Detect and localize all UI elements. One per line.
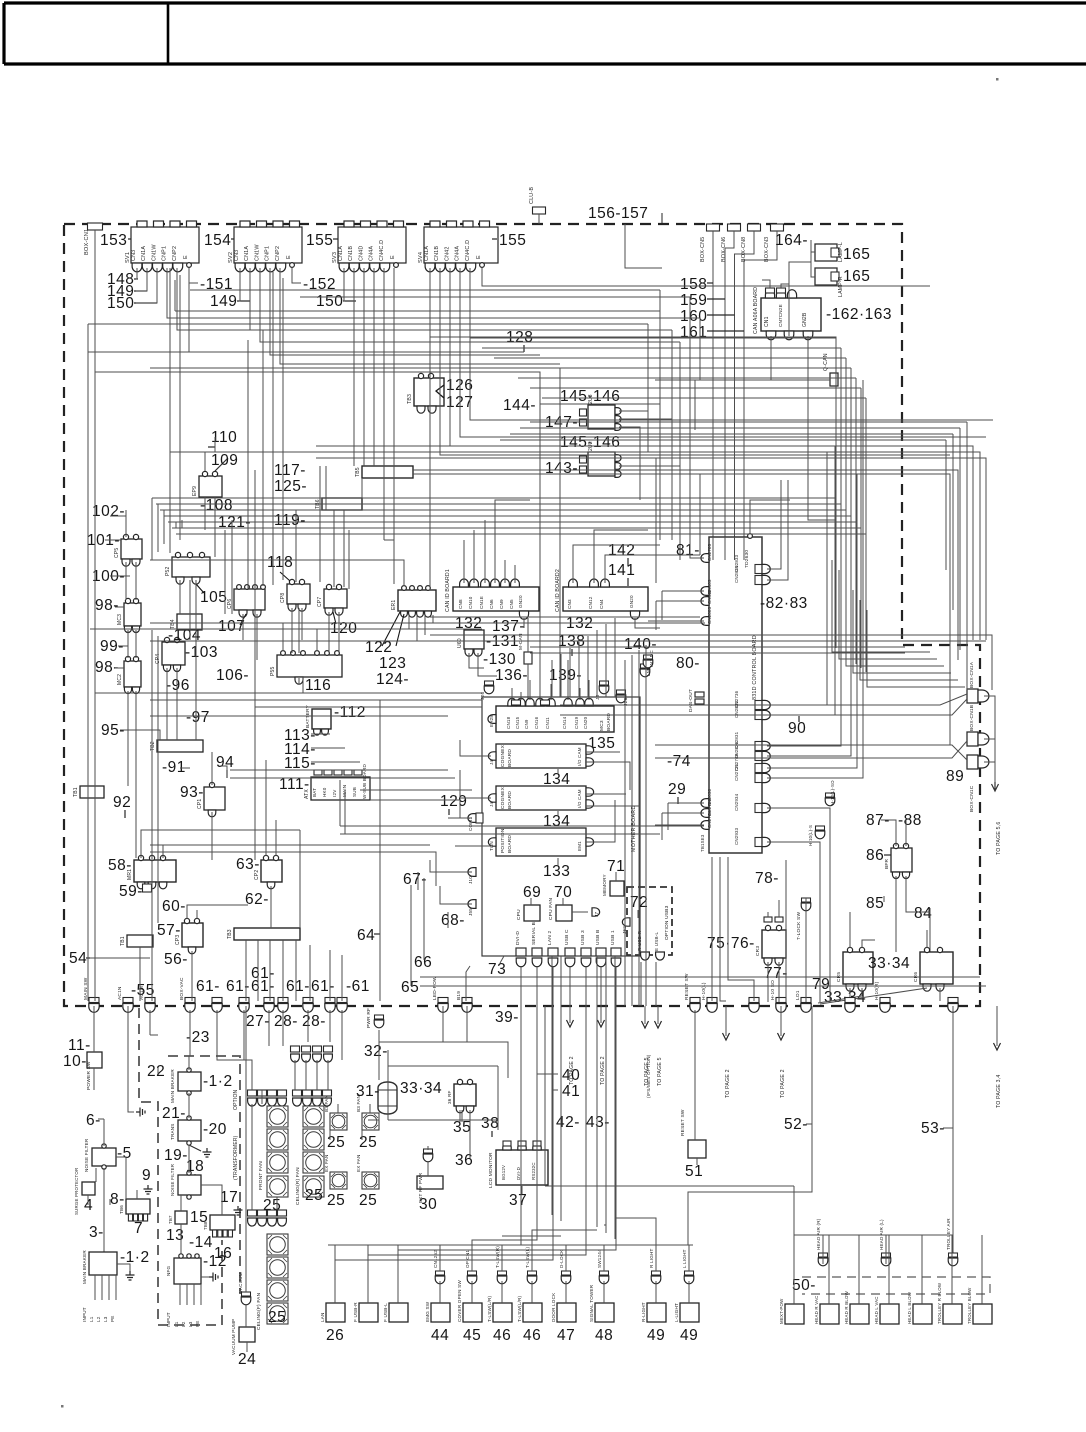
svg-text:105: 105: [200, 589, 227, 606]
wire sv4 p5: [470, 268, 993, 420]
wire chain 3: [984, 761, 995, 763]
svg-text:48: 48: [595, 1327, 613, 1344]
svg-text:CN10: CN10: [468, 596, 473, 609]
svg-text:BOARD: BOARD: [507, 835, 513, 853]
wire head air r: [822, 1235, 824, 1264]
wire p55 up2: [316, 629, 318, 651]
svg-text:GN20: GN20: [518, 595, 523, 608]
wire FUSBL up: [397, 1245, 399, 1303]
device TROLLEY BLOW: [973, 1304, 992, 1324]
wire tb1b down: [139, 947, 141, 1001]
svg-text:31-: 31-: [356, 1083, 380, 1100]
wire u60 out2: [478, 653, 497, 676]
connector BOX-CN6: [728, 224, 741, 231]
wire p55 down: [302, 677, 304, 693]
riser r3: [850, 368, 852, 516]
svg-text:SW1244: SW1244: [597, 1249, 602, 1268]
wire cp2 up: [265, 760, 267, 856]
bus a5: [150, 368, 560, 697]
pin CN4C.D of SV4: [466, 263, 476, 272]
wire mid v2: [247, 340, 249, 589]
wire tb3 down2: [257, 940, 259, 1001]
relay P55 (116): [277, 655, 342, 677]
wire rf loop bottom: [388, 1119, 498, 1121]
wire sv1 cnp2 drop: [179, 275, 181, 540]
wire cp8 feed2: [295, 510, 297, 582]
breaker EP9 (108-110): [199, 476, 222, 497]
wire rloop1: [631, 655, 633, 1006]
wire 35 down: [459, 1110, 461, 1122]
device COVER OPEN SW: [463, 1303, 482, 1322]
wire sv1 e down: [188, 283, 190, 352]
svg-text:32-: 32-: [364, 1043, 388, 1060]
wire rv0: [945, 440, 947, 570]
svg-text:159: 159: [680, 292, 707, 309]
wire rloop2: [638, 650, 640, 1006]
connector pass on boundary: [749, 998, 759, 1013]
wire: [572, 911, 588, 913]
wire cn2933 out: [767, 842, 820, 1002]
svg-text:LED-POW: LED-POW: [432, 976, 438, 1000]
svg-text:24: 24: [238, 1351, 256, 1368]
svg-text:CN2934: CN2934: [734, 793, 739, 811]
svg-text:10-: 10-: [63, 1053, 87, 1070]
pin CN4: [776, 290, 785, 298]
wire: [226, 770, 228, 778]
svg-text:CAN A06A BOARD: CAN A06A BOARD: [753, 287, 759, 334]
wire 6 to filter: [103, 1119, 105, 1146]
wire: [134, 302, 157, 304]
device HEAD L VAC: [880, 1304, 899, 1324]
fan EXb: [362, 1172, 379, 1189]
svg-text:CELING(F) FAN: CELING(F) FAN: [256, 1292, 262, 1330]
wire HEAD L VAC: [888, 1235, 890, 1304]
pin CN2736: [755, 701, 762, 710]
device HEAD R BLOW: [850, 1304, 869, 1324]
pin CAN board bottom: [784, 331, 794, 340]
wire AC1N: [128, 1006, 134, 1112]
wire 101 t: [105, 539, 121, 541]
svg-text:DVI-D: DVI-D: [516, 1167, 521, 1180]
connector: [640, 664, 650, 677]
pin CN2704: [701, 821, 709, 830]
wire: [343, 300, 356, 302]
wire cp5 mc3: [125, 562, 127, 600]
wire ext1: [427, 1146, 429, 1150]
wire mh1: [230, 769, 448, 771]
connector LED-POW on boundary: [438, 998, 448, 1013]
svg-text:65: 65: [401, 979, 419, 996]
transformer TRANS (20): [178, 1120, 201, 1141]
wire td2630: [750, 500, 790, 534]
pin E of SV1: [187, 263, 192, 268]
svg-text:CAN ID BOARD1: CAN ID BOARD1: [445, 569, 451, 612]
wire 150: [136, 268, 157, 303]
wire braker2 trans: [188, 1093, 190, 1118]
pin CN1A of SV4: [425, 263, 435, 272]
svg-text:45: 45: [463, 1327, 481, 1344]
wire input2: [200, 1284, 202, 1305]
wire tb3 down3: [269, 940, 271, 1001]
wire cp7 p55: [328, 612, 330, 653]
svg-text:CN2933: CN2933: [734, 827, 739, 845]
wire canid up2: [473, 530, 475, 583]
svg-text:POSITION: POSITION: [500, 828, 506, 853]
relay CP2 (63/62): [261, 860, 282, 882]
wire 2U2 b: [619, 466, 680, 560]
pin CN18: [508, 698, 516, 706]
wire cp3 down: [191, 951, 193, 1001]
riser link0: [470, 337, 836, 339]
connector BOX-VAC on boundary: [185, 998, 195, 1013]
pin CN2933: [755, 838, 762, 847]
pin CN103: [701, 587, 709, 596]
svg-text:CN4C.D: CN4C.D: [379, 240, 385, 261]
connector 2U3 (147): [588, 405, 615, 429]
connector B19 on boundary: [462, 998, 472, 1013]
wire chain 1: [984, 696, 995, 782]
svg-text:19-: 19-: [164, 1147, 188, 1164]
svg-text:CN1W: CN1W: [254, 244, 260, 261]
wire FUSBR up: [367, 1245, 369, 1303]
pin CN2705: [701, 554, 709, 563]
svg-text:SURGE PROTECTOR: SURGE PROTECTOR: [74, 1168, 79, 1215]
wire: [627, 558, 629, 566]
svg-text:USB 3: USB 3: [580, 930, 586, 945]
wire filter to surge: [95, 1168, 97, 1182]
svg-text:40: 40: [562, 1067, 580, 1084]
riser r0: [835, 338, 837, 498]
corner 1: [839, 570, 937, 659]
svg-text:VACUUM PUMP: VACUUM PUMP: [231, 1319, 236, 1355]
lamp LAMP-R: [815, 268, 839, 285]
lb h0: [151, 497, 153, 499]
svg-text:139-: 139-: [549, 667, 582, 684]
pin CN9: [501, 579, 510, 587]
wire serial down: [472, 967, 537, 1245]
loop top 1: [560, 654, 562, 697]
wire: [374, 933, 380, 935]
wire cp3 up2: [196, 910, 198, 919]
wire cb l4: [661, 813, 663, 840]
wire: [806, 1123, 812, 1125]
svg-text:117-: 117-: [274, 462, 306, 479]
wire: [410, 980, 412, 986]
bus left vertical2: [94, 372, 96, 1001]
svg-text:93-: 93-: [180, 784, 204, 801]
svg-text:ER1: ER1: [391, 600, 397, 610]
svg-text:EX FAN: EX FAN: [324, 1154, 329, 1172]
svg-text:CN108: CN108: [707, 589, 712, 604]
svg-text:I/O CAM: I/O CAM: [577, 747, 582, 766]
wire rh1: [510, 433, 953, 435]
arrow TO PAGE 2: [598, 1020, 605, 1027]
svg-text:TO PAGE 5,6: TO PAGE 5,6: [996, 822, 1002, 855]
wire er1 down1: [408, 615, 410, 629]
header table divider: [167, 3, 170, 64]
svg-text:LO1: LO1: [795, 990, 801, 1000]
wire 102 cp5: [125, 510, 127, 537]
svg-text:RESET SW: RESET SW: [680, 1109, 686, 1136]
device L-LIGHT: [680, 1303, 699, 1322]
pin CN4D of SV3: [360, 263, 370, 272]
wire 22 stub: [150, 1034, 158, 1036]
svg-text:HEAD L BLOW: HEAD L BLOW: [907, 1291, 912, 1324]
riser link1: [482, 347, 841, 349]
svg-text:66: 66: [414, 954, 432, 971]
wire CR5 up2: [862, 940, 875, 948]
svg-text:46: 46: [493, 1327, 511, 1344]
svg-text:TB3: TB3: [407, 394, 413, 404]
fan B3b: [362, 1113, 379, 1130]
wire 121 v: [224, 530, 226, 614]
wire cb l3: [667, 803, 669, 830]
relay MR1 (58/59): [134, 860, 176, 882]
wire: [194, 1174, 196, 1180]
svg-text:CN1A: CN1A: [338, 246, 344, 261]
connector H-10(R) on boundary: [880, 998, 890, 1013]
svg-text:BOX-CN1: BOX-CN1: [84, 229, 90, 255]
svg-text:CN1: CN1: [764, 316, 770, 327]
wire: [423, 954, 425, 960]
riser link4: [518, 377, 856, 379]
svg-text:R LIGHT: R LIGHT: [649, 1248, 654, 1268]
connector SERIAL B: [532, 948, 542, 956]
wire 8 stub: [109, 1199, 111, 1205]
loop top 4: [587, 636, 589, 697]
dashed option usb box: [627, 887, 672, 955]
wire: [237, 300, 250, 302]
wire right v2: [679, 342, 681, 466]
wire trans filter: [188, 1145, 190, 1173]
wire p55 up: [282, 623, 284, 651]
wire right v4: [647, 324, 649, 452]
wire: [929, 908, 931, 914]
svg-text:68-: 68-: [441, 912, 465, 929]
wire OP CN1 up: [471, 1245, 473, 1271]
wire cap down1: [294, 1060, 296, 1090]
wire: [86, 957, 90, 959]
bus d1: [430, 616, 700, 618]
wire 91 t: [180, 767, 190, 769]
connector: [241, 1292, 251, 1305]
svg-text:CLU-B: CLU-B: [529, 187, 535, 204]
wire lamp1: [811, 251, 815, 253]
wire b3d: [369, 1104, 371, 1113]
wire cognex2 out2: [586, 805, 640, 807]
svg-text:PE: PE: [110, 1315, 115, 1322]
device LAN: [326, 1303, 345, 1322]
svg-text:125-: 125-: [274, 478, 307, 495]
wire canid up3: [484, 520, 486, 583]
wire: [538, 214, 540, 224]
svg-text:89: 89: [946, 768, 964, 785]
svg-text:H-10 SO: H-10 SO: [770, 980, 776, 1000]
svg-text:CP7: CP7: [317, 597, 323, 607]
wire pwr rf down: [466, 1006, 468, 1042]
wire cb l1: [661, 591, 663, 620]
wire: [707, 298, 725, 300]
wire diag 4: [655, 741, 967, 758]
bus left vertical: [87, 324, 89, 1001]
wire board down3: [728, 857, 754, 1001]
svg-text:H-10(L)-S: H-10(L)-S: [808, 825, 813, 846]
wire: [571, 649, 573, 656]
wire: [707, 282, 713, 284]
wire 2U3 a: [619, 411, 648, 452]
svg-text:156-157: 156-157: [588, 205, 648, 222]
wire cb l2: [655, 601, 657, 630]
svg-text:E: E: [286, 255, 292, 259]
arrow TO PAGE 2: [567, 1020, 574, 1027]
wire rh0: [500, 439, 946, 441]
wire sv4 p2: [440, 268, 950, 455]
wire j55 out: [440, 886, 472, 904]
pin CN2731: [755, 774, 762, 783]
loop bottom 2: [596, 956, 598, 1227]
connector AC1N on boundary: [123, 998, 133, 1013]
svg-text:52-: 52-: [784, 1116, 808, 1133]
wire BOX-CN6: [725, 231, 734, 560]
connector pass on boundary: [239, 998, 249, 1013]
svg-text:78-: 78-: [755, 870, 779, 887]
wire canid2 up2: [594, 530, 648, 583]
capacitor 31: [378, 1082, 397, 1114]
wire sv1 p5: [177, 268, 672, 330]
wire 98a t: [115, 606, 124, 608]
lb4: [175, 522, 177, 528]
pin GN20: [519, 611, 528, 619]
wire cp3 up: [187, 905, 248, 919]
wire 65 v: [410, 885, 412, 980]
wire can2: [781, 284, 789, 292]
connector COM1: [468, 814, 476, 823]
pin CN12: [590, 579, 599, 587]
wire 144 bus: [540, 403, 660, 405]
bus c2: [160, 510, 846, 656]
pin CN2738: [755, 764, 762, 773]
breaker MAIN BRAKER2 (1/2): [178, 1072, 201, 1091]
connector LAN 2: [548, 948, 558, 956]
fan CELING R: [303, 1129, 324, 1150]
svg-text:J4: J4: [489, 802, 494, 807]
wire: [128, 238, 131, 240]
wire j4a: [460, 740, 491, 756]
svg-text:CN5: CN5: [509, 599, 514, 609]
wire right v5: [659, 311, 661, 404]
wire j10 out: [430, 860, 472, 872]
wire 32 top: [379, 1041, 508, 1043]
wire SW1244 up: [603, 1245, 605, 1271]
wire canid2 up1: [573, 545, 660, 583]
svg-text:-20: -20: [203, 1121, 227, 1138]
celing F fan connector row: [248, 1210, 257, 1216]
wire: [175, 310, 660, 312]
pin CNP1 of SV2: [266, 263, 276, 272]
svg-text:F USB-R: F USB-R: [353, 1302, 358, 1322]
wire tb3 down6: [309, 945, 311, 1001]
wire sv4 p3: [450, 268, 973, 446]
connector: [948, 1253, 958, 1266]
bus e2: [150, 699, 482, 701]
connector: [881, 1253, 891, 1266]
wire mh4: [370, 800, 460, 818]
wire usbl out: [655, 962, 657, 1006]
svg-text:155: 155: [306, 232, 333, 249]
wire mh2: [230, 777, 455, 779]
wire mc3 up3: [529, 680, 531, 700]
wire TROLLEY R BLOW: [951, 1235, 953, 1304]
wire CR6 up: [926, 930, 928, 948]
svg-text:PE: PE: [195, 1320, 200, 1327]
svg-text:OPTION: OPTION: [233, 1089, 239, 1110]
wire rv2: [959, 428, 961, 650]
svg-text:L LIGHT: L LIGHT: [682, 1249, 687, 1268]
svg-text:-130: -130: [483, 651, 516, 668]
svg-text:28-: 28-: [274, 1013, 298, 1030]
svg-text:D-LOCK: D-LOCK: [559, 1249, 564, 1268]
svg-text:TB4: TB4: [170, 619, 176, 629]
svg-text:109: 109: [211, 452, 238, 469]
wire mc3 mc2: [127, 630, 129, 658]
battery (112): [312, 709, 331, 729]
wire: [204, 452, 206, 471]
svg-text:BG12V: BG12V: [501, 1165, 506, 1180]
svg-text:CELING(R) FAN: CELING(R) FAN: [295, 1167, 301, 1205]
loop bottom 3: [605, 956, 607, 1233]
bus d6: [530, 646, 905, 648]
wire: [707, 330, 744, 332]
wire 100 t: [110, 575, 130, 577]
wire cn2836: [767, 470, 851, 756]
pin CN1E: [481, 579, 490, 587]
svg-text:EP9: EP9: [192, 486, 198, 496]
svg-text:150: 150: [107, 295, 134, 312]
board MC3 BOARD (135): [496, 706, 614, 732]
terminal TB6 bar: [322, 498, 362, 510]
pin CN2833: [755, 565, 762, 574]
bus a2: [88, 323, 648, 325]
svg-text:86: 86: [866, 847, 884, 864]
bus b2: [170, 452, 980, 640]
connector LO1 on boundary: [801, 998, 811, 1013]
ground: [136, 1108, 145, 1117]
svg-text:56-: 56-: [164, 951, 188, 968]
contactor MC3 (98): [124, 603, 141, 626]
svg-text:26: 26: [326, 1327, 344, 1344]
wire mc3 up2: [520, 692, 522, 700]
svg-text:25: 25: [268, 1309, 286, 1326]
svg-text:U60: U60: [457, 638, 463, 648]
svg-text:CN8: CN8: [458, 599, 463, 609]
wire: [333, 238, 338, 240]
svg-text:158: 158: [680, 276, 707, 293]
svg-text:(TRANSFORMER): (TRANSFORMER): [233, 1135, 239, 1180]
wire: [637, 910, 639, 918]
svg-text:30: 30: [419, 1196, 437, 1213]
wire 6 stub: [98, 1118, 104, 1120]
wire: [157, 1068, 159, 1074]
svg-text:J4: J4: [489, 760, 494, 765]
wire t2: [689, 297, 691, 352]
tick 73: [500, 956, 504, 963]
svg-text:HEAD AIR (R): HEAD AIR (R): [816, 1218, 821, 1250]
wire L LIGHT up: [688, 1245, 690, 1271]
svg-text:E: E: [476, 255, 482, 259]
lcd monitor (37): [496, 1150, 548, 1185]
wire fan feed6: [243, 1010, 245, 1060]
wire M-CAN down: [527, 664, 529, 706]
